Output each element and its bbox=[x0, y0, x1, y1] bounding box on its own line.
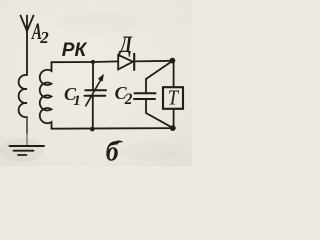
wire node to diode bbox=[93, 60, 118, 63]
capacitor C1 top lead bbox=[92, 62, 94, 90]
svg-text:Т: Т bbox=[168, 86, 180, 109]
wire diode to top-right node bbox=[134, 60, 172, 63]
wire T to bottom node bbox=[173, 109, 175, 128]
node C1 top junction bbox=[91, 60, 95, 64]
wire top-right node to C2 diagonal bbox=[146, 61, 172, 79]
ground bbox=[10, 145, 45, 147]
capacitor C1 plates bbox=[85, 89, 106, 91]
node bottom-right junction bbox=[170, 125, 176, 131]
wire coil to ground bbox=[26, 117, 28, 134]
svg-text:2: 2 bbox=[39, 28, 49, 47]
wire antenna to coil bbox=[26, 31, 28, 75]
node C1 bottom junction bbox=[90, 127, 95, 132]
svg-text:Д: Д bbox=[118, 31, 132, 57]
diode D bbox=[118, 55, 133, 70]
wire tank top rail bbox=[52, 61, 94, 63]
capacitor C2 top lead bbox=[145, 79, 147, 93]
wire bottom rail bbox=[52, 127, 173, 130]
inductor L1 antenna coil bbox=[19, 75, 27, 117]
svg-text:б: б bbox=[106, 136, 120, 166]
telephone T box bbox=[163, 87, 183, 109]
svg-text:1: 1 bbox=[73, 93, 81, 109]
node top-right junction bbox=[170, 58, 176, 64]
svg-text:2: 2 bbox=[124, 91, 133, 108]
antenna A2 bbox=[21, 16, 34, 33]
capacitor C2 bottom lead + diagonal to node bbox=[146, 99, 172, 128]
capacitor C1 bottom lead bbox=[92, 96, 94, 130]
capacitor C2 plates bbox=[135, 92, 156, 94]
capacitor C1 arrow head bbox=[98, 74, 104, 82]
capacitor C1 arrow bbox=[86, 79, 102, 106]
svg-text:РК: РК bbox=[62, 40, 88, 61]
inductor L2 tuning coil bbox=[40, 62, 52, 129]
wire top-right node to T bbox=[173, 61, 175, 87]
